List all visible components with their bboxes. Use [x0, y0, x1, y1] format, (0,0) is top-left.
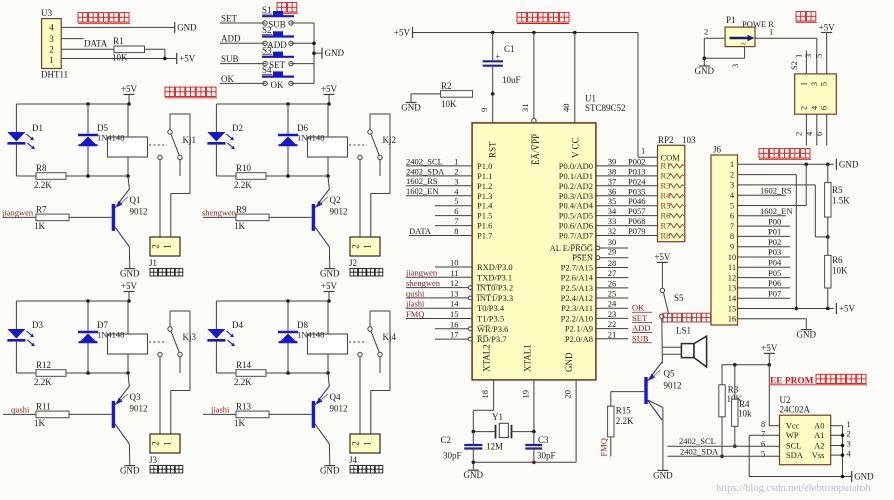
svg-text:AL E/P̅R̅O̅G̅: AL E/P̅R̅O̅G̅	[550, 243, 594, 253]
section title 传感器接口	[78, 13, 130, 24]
svg-text:STC89C52: STC89C52	[585, 103, 626, 113]
svg-text:32: 32	[608, 226, 617, 236]
svg-text:GND: GND	[695, 66, 715, 76]
svg-text:2.2K: 2.2K	[234, 377, 252, 387]
section title 按键	[277, 3, 298, 14]
wire pin 15 T1/P3.5 net FMQ	[406, 309, 504, 324]
svg-text:A0: A0	[814, 421, 824, 431]
svg-text:9012: 9012	[130, 207, 148, 217]
wire SUB net label to S3	[220, 54, 266, 64]
svg-text:RXD/P3.0: RXD/P3.0	[477, 262, 513, 272]
svg-text:12: 12	[728, 272, 737, 282]
ground GND (Q5)	[653, 470, 673, 480]
svg-text:31: 31	[520, 104, 530, 113]
pin name GND(20)	[564, 352, 574, 372]
wire J6 pin1 to GND	[738, 163, 834, 167]
svg-text:+5V: +5V	[394, 28, 411, 38]
relay Kj2 coil	[288, 104, 348, 178]
relay Kj1 coil	[88, 104, 148, 178]
power +5V (Q2 block)	[321, 84, 338, 104]
wire S2 pin6 stub	[814, 114, 827, 145]
svg-text:1.5K: 1.5K	[832, 196, 850, 206]
svg-text:19: 19	[521, 390, 531, 399]
section title EE PROM 存储器电路	[770, 374, 867, 386]
resistor R14	[216, 360, 288, 387]
wire U3 pin1	[61, 58, 177, 60]
pin name RST	[488, 141, 498, 158]
svg-text:J6: J6	[713, 145, 722, 155]
svg-text:T1/P3.5: T1/P3.5	[477, 314, 504, 324]
svg-text:P0.1/AD1: P0.1/AD1	[559, 171, 593, 181]
svg-text:8: 8	[761, 419, 765, 429]
svg-text:Kj2: Kj2	[383, 135, 397, 145]
svg-text:https://blog.csdn.net/elebtron: https://blog.csdn.net/elebtronpuiah	[716, 483, 863, 494]
resistor R10	[216, 163, 288, 190]
svg-text:P2.0/A8: P2.0/A8	[565, 334, 593, 344]
svg-text:DATA: DATA	[409, 226, 432, 236]
wire R1 to +5V node	[145, 49, 165, 58]
pin J6-2 number	[730, 169, 734, 179]
transistor Q2 9012	[312, 189, 348, 247]
svg-text:GND: GND	[320, 269, 340, 279]
wire U2 A1	[831, 434, 845, 438]
wire RST pin 9	[479, 94, 493, 123]
wire pin 27 P2.6/A14	[561, 268, 629, 283]
pin J6-11 number	[728, 262, 736, 272]
pin U2 SCL (6)	[761, 439, 801, 451]
svg-text:OK: OK	[271, 80, 284, 90]
svg-text:R14: R14	[236, 360, 252, 370]
svg-text:C3: C3	[538, 435, 549, 445]
svg-text:shengwen: shengwen	[406, 278, 441, 288]
svg-text:5: 5	[761, 448, 765, 458]
section title 单片机系统	[517, 12, 569, 23]
svg-text:D7: D7	[97, 320, 108, 330]
power +5V (Q4 block)	[321, 281, 338, 301]
svg-text:6: 6	[454, 206, 458, 216]
svg-text:P1: P1	[726, 15, 736, 25]
svg-text:RST: RST	[488, 141, 498, 158]
svg-text:P03: P03	[768, 247, 781, 257]
svg-text:R9: R9	[236, 205, 247, 215]
ground GND (P1)	[695, 58, 715, 76]
svg-text:9: 9	[479, 108, 489, 112]
svg-text:2402_SCL: 2402_SCL	[406, 156, 443, 166]
pin J6-9 number	[730, 242, 734, 252]
svg-text:1602_RS: 1602_RS	[760, 185, 792, 195]
svg-text:P035: P035	[628, 186, 645, 196]
svg-text:6: 6	[730, 211, 734, 221]
wire J6 pin11 P04	[738, 258, 791, 268]
wire pin 26 P2.5/A13	[561, 278, 629, 293]
svg-text:17: 17	[450, 330, 459, 340]
wire pin 29 PSEN	[572, 247, 629, 263]
ground GND (Q3)	[120, 466, 140, 476]
svg-text:WP: WP	[786, 430, 799, 440]
svg-text:1: 1	[847, 419, 851, 429]
svg-text:jiashi: jiashi	[210, 404, 230, 414]
svg-text:3: 3	[730, 64, 740, 68]
resistor RP2 element R7	[661, 220, 684, 230]
svg-text:27: 27	[608, 268, 617, 278]
power +5V (J6 pin15)	[836, 303, 855, 314]
svg-text:GND: GND	[854, 472, 874, 482]
pin J6-5 number	[730, 200, 734, 210]
svg-text:SUB: SUB	[221, 54, 239, 64]
wire crystal ground rail	[472, 461, 577, 471]
resistor R3 10K	[719, 385, 743, 459]
net label shengwen	[202, 207, 237, 217]
svg-text:P1.7: P1.7	[477, 231, 492, 241]
terminal block J3	[149, 434, 183, 473]
connector U3 DHT11	[41, 8, 68, 80]
svg-text:2: 2	[454, 166, 458, 176]
svg-text:10K: 10K	[832, 266, 848, 276]
svg-text:GND: GND	[653, 470, 673, 480]
pin U2 A0 (1)	[814, 419, 851, 431]
svg-text:2: 2	[351, 244, 361, 249]
svg-text:D6: D6	[297, 123, 308, 133]
svg-text:P07: P07	[768, 288, 781, 298]
wire pin 30 ALE/PROG	[550, 237, 629, 253]
svg-text:P1.6: P1.6	[477, 221, 492, 231]
svg-text:P2.3/A11: P2.3/A11	[561, 303, 593, 313]
wire S2 to GND bus	[290, 42, 314, 44]
svg-text:2: 2	[798, 106, 808, 110]
wire S2 pin4 stub	[804, 114, 817, 145]
diode D8 1N4148	[278, 301, 324, 375]
svg-text:+5V: +5V	[121, 84, 138, 94]
svg-text:28: 28	[608, 258, 617, 268]
wire pin 36 P0.3/AD3 net P03	[559, 186, 658, 201]
svg-text:P1.1: P1.1	[477, 171, 492, 181]
svg-text:30pF: 30pF	[443, 451, 462, 461]
svg-text:Kj1: Kj1	[183, 135, 197, 145]
svg-text:1K: 1K	[34, 418, 46, 428]
svg-text:11: 11	[450, 268, 458, 278]
svg-text:30: 30	[608, 237, 617, 247]
svg-text:P0.5/AD5: P0.5/AD5	[559, 211, 593, 221]
svg-text:Kj3: Kj3	[183, 332, 197, 342]
svg-text:18: 18	[480, 390, 490, 399]
svg-text:1: 1	[363, 441, 373, 446]
svg-text:33: 33	[608, 216, 617, 226]
resistor R15 2.2K	[608, 392, 645, 437]
wire Q1 emitter to GND	[128, 247, 130, 269]
wire pin 12 I̅N̅T̅0̅/P3.2 net shengwen	[406, 278, 513, 293]
wire Q4 emitter to GND	[328, 444, 330, 466]
svg-text:S2: S2	[789, 61, 799, 70]
svg-text:GND: GND	[564, 352, 574, 372]
svg-text:1: 1	[454, 156, 458, 166]
power +5V (Q3 block)	[121, 281, 138, 301]
resistor RP2 element R5	[661, 200, 684, 210]
wire J6 pin4 1602_RS	[738, 185, 792, 195]
svg-text:J4: J4	[349, 455, 358, 465]
svg-text:Q5: Q5	[664, 369, 675, 379]
svg-text:OK: OK	[221, 74, 234, 84]
svg-text:P1.3: P1.3	[477, 191, 492, 201]
svg-text:Q3: Q3	[130, 392, 141, 402]
wire coil to Q2	[328, 176, 329, 189]
svg-text:P2.5/A13: P2.5/A13	[561, 283, 593, 293]
svg-text:3: 3	[803, 54, 813, 58]
svg-text:GND: GND	[320, 466, 340, 476]
svg-text:10k: 10k	[738, 409, 752, 419]
svg-text:9012: 9012	[330, 404, 348, 414]
svg-text:1N4148: 1N4148	[297, 133, 324, 143]
svg-text:2: 2	[730, 169, 734, 179]
svg-text:P046: P046	[628, 196, 645, 206]
svg-text:FMQ: FMQ	[599, 438, 609, 456]
svg-text:1K: 1K	[234, 221, 246, 231]
svg-text:10uF: 10uF	[502, 75, 521, 85]
pin J6-4 number	[730, 190, 735, 200]
svg-text:P002: P002	[628, 156, 645, 166]
svg-text:P2.1/A9: P2.1/A9	[565, 324, 593, 334]
svg-text:R10: R10	[236, 163, 252, 173]
switch S2 push button	[262, 25, 294, 50]
pin J6-16 number	[728, 314, 737, 324]
speaker LS1	[662, 318, 707, 367]
svg-text:XTAL2: XTAL2	[482, 344, 492, 372]
switch S3 push button	[262, 45, 294, 70]
svg-text:R12: R12	[36, 360, 51, 370]
svg-text:5: 5	[454, 196, 458, 206]
svg-text:R2: R2	[441, 81, 452, 91]
svg-text:qushi: qushi	[406, 288, 425, 298]
wire P1 pin1 to S2	[755, 26, 817, 74]
svg-text:R1: R1	[113, 36, 124, 46]
wire J6 pin10 P03	[738, 247, 791, 257]
wire U2 Vss	[831, 453, 845, 457]
node junction R1/pin1	[163, 57, 167, 61]
svg-text:+5V: +5V	[654, 252, 671, 262]
wire net 2402_SDA	[667, 446, 779, 456]
switch S1 push button	[262, 5, 294, 30]
resistor R12	[16, 360, 88, 387]
svg-text:XTAL1: XTAL1	[523, 344, 533, 372]
LED D1	[7, 104, 43, 176]
svg-text:10: 10	[450, 258, 459, 268]
svg-text:1: 1	[730, 159, 734, 169]
svg-text:V CC: V CC	[571, 137, 581, 158]
svg-text:40: 40	[561, 104, 571, 113]
resistor R2	[411, 81, 473, 109]
svg-text:R7: R7	[36, 205, 47, 215]
wire P1 pin3	[703, 47, 745, 68]
svg-text:E̅A̅/V̅P̅P̅: E̅A̅/V̅P̅P̅	[531, 133, 541, 165]
svg-text:~: ~	[741, 39, 746, 49]
svg-text:S5: S5	[674, 293, 684, 303]
svg-text:jiashi: jiashi	[405, 299, 425, 309]
svg-text:5: 5	[814, 54, 824, 58]
power +5V (Q1 block)	[121, 84, 138, 104]
wire coil to Q3	[128, 373, 129, 386]
svg-text:GND: GND	[120, 269, 140, 279]
pin U2 A2 (3)	[814, 439, 851, 451]
svg-text:1: 1	[798, 82, 808, 86]
svg-text:3: 3	[454, 176, 458, 186]
svg-text:GND: GND	[839, 159, 859, 169]
svg-text:P024: P024	[628, 176, 646, 186]
resistor R8	[16, 163, 88, 190]
diode D6 1N4148	[278, 104, 324, 178]
pin name VCC	[571, 137, 581, 158]
wire pin 4 P1.3 net 1602_EN	[406, 186, 492, 201]
svg-text:GND: GND	[464, 470, 484, 480]
svg-text:9012: 9012	[330, 207, 348, 217]
transistor Q4 9012	[312, 386, 348, 444]
pin J6-1 number	[730, 159, 734, 169]
svg-text:+5V: +5V	[321, 84, 338, 94]
svg-text:2402_SDA: 2402_SDA	[680, 446, 719, 456]
svg-text:2402_SCL: 2402_SCL	[679, 436, 716, 446]
svg-text:10K: 10K	[441, 99, 457, 109]
svg-text:P1.2: P1.2	[477, 181, 492, 191]
wire S2 pin1 stub	[794, 51, 807, 74]
wire net 2402_SCL	[667, 436, 779, 446]
resistor R11	[3, 402, 112, 429]
svg-text:S4: S4	[262, 65, 272, 75]
svg-text:+5V: +5V	[121, 281, 138, 291]
svg-text:T0/P3.4: T0/P3.4	[477, 303, 505, 313]
resistor RP2 element R6	[661, 210, 684, 220]
power +5V (rail)	[394, 27, 413, 38]
svg-text:1N4148: 1N4148	[97, 133, 124, 143]
svg-text:12M: 12M	[486, 442, 503, 452]
svg-text:1N4148: 1N4148	[297, 330, 324, 340]
wire J6 pin16 to GND	[738, 319, 807, 330]
svg-text:7: 7	[761, 429, 765, 439]
svg-text:1K: 1K	[34, 221, 46, 231]
svg-text:22: 22	[608, 319, 617, 329]
svg-text:A1: A1	[814, 430, 824, 440]
svg-text:S2: S2	[262, 25, 272, 35]
wire pin 3 P1.2 net 1602_RS	[406, 176, 492, 191]
svg-text:U1: U1	[585, 94, 596, 104]
pin name XTAL2	[482, 344, 492, 372]
svg-text:P1.0: P1.0	[477, 161, 492, 171]
wire pin 37 P0.2/AD2 net P02	[559, 176, 658, 191]
ground GND (J6 pin1)	[836, 159, 858, 170]
svg-text:1: 1	[769, 26, 773, 36]
ground GND (buttons)	[322, 48, 344, 59]
ground GND (crystal)	[464, 470, 484, 480]
svg-text:P00: P00	[768, 216, 781, 226]
svg-text:P01: P01	[768, 227, 781, 237]
svg-text:P04: P04	[768, 258, 782, 268]
svg-text:8: 8	[730, 231, 734, 241]
net label FMQ (R15)	[599, 437, 611, 457]
wire Q2 emitter to GND	[328, 247, 330, 269]
pin J6-10 number	[728, 252, 737, 262]
power +5V (S5)	[654, 252, 671, 288]
svg-text:ADD: ADD	[632, 323, 650, 333]
wire pin 23 P2.2/A10 net SET	[561, 309, 652, 324]
svg-text:24C02A: 24C02A	[780, 405, 811, 415]
svg-text:1602_RS: 1602_RS	[406, 176, 438, 186]
svg-text:D5: D5	[97, 123, 108, 133]
wire +5V to R3/R4	[722, 363, 771, 399]
svg-text:P0.6/AD6: P0.6/AD6	[559, 221, 593, 231]
svg-text:GND: GND	[120, 466, 140, 476]
svg-text:P0.3/AD3: P0.3/AD3	[559, 191, 593, 201]
relay Kj4 coil	[288, 301, 348, 375]
svg-text:11: 11	[728, 262, 736, 272]
wire pin 1 P1.0 net 2402_SCL	[406, 156, 492, 171]
wire J6 pin5 to GND net	[738, 164, 807, 205]
relay contact Kj4	[349, 311, 397, 434]
transistor Q1 9012	[112, 189, 148, 247]
svg-text:2: 2	[704, 26, 708, 36]
wire pin 32 P0.7/AD7 net P07	[559, 226, 658, 241]
svg-text:SDA: SDA	[786, 450, 804, 460]
wire SET net label to S1	[220, 13, 266, 23]
svg-text:9: 9	[730, 242, 734, 252]
svg-text:15: 15	[728, 303, 737, 313]
diode D7 1N4148	[78, 301, 124, 375]
pin U2 SDA (5)	[761, 448, 804, 460]
svg-text:8: 8	[454, 226, 458, 236]
svg-text:2: 2	[794, 132, 804, 136]
wire ADD net label to S2	[220, 34, 266, 44]
wire coil to Q4	[328, 373, 329, 386]
svg-text:S3: S3	[262, 45, 272, 55]
wire pin 2 P1.1 net 2402_SDA	[406, 166, 492, 181]
svg-text:P013: P013	[628, 166, 645, 176]
wire VCC pin 40	[561, 33, 575, 123]
wire pin 18 XTAL2	[473, 380, 493, 432]
svg-text:1: 1	[641, 146, 645, 156]
svg-text:29: 29	[608, 247, 617, 257]
svg-text:jiangwen: jiangwen	[1, 207, 34, 217]
svg-text:9012: 9012	[664, 381, 682, 391]
resistor RP2 element R2	[661, 171, 684, 181]
resistor R1	[112, 36, 145, 62]
node bus junction 1	[312, 42, 316, 46]
wire S4 to GND bus	[290, 82, 314, 84]
resistor R4 10k	[732, 399, 752, 448]
wire pin 39 P0.0/AD0 net P00	[559, 156, 658, 171]
svg-text:36: 36	[608, 186, 617, 196]
svg-text:13: 13	[450, 288, 459, 298]
svg-text:34: 34	[608, 206, 617, 216]
wire pin 35 P0.4/AD4 net P04	[559, 196, 658, 211]
terminal block J4	[349, 434, 383, 473]
resistor R9	[203, 205, 312, 232]
resistor RP2 element R1	[661, 161, 684, 171]
ground GND (Q4)	[320, 466, 340, 476]
LED D4	[207, 301, 243, 373]
wire P1 pin2	[704, 26, 725, 58]
svg-text:7: 7	[730, 221, 734, 231]
svg-text:FMQ: FMQ	[406, 309, 424, 319]
svg-text:R15: R15	[616, 406, 632, 416]
svg-text:R13: R13	[236, 402, 252, 412]
relay contact Kj3	[149, 311, 197, 434]
svg-text:P05: P05	[768, 268, 781, 278]
svg-text:D4: D4	[232, 320, 243, 330]
svg-text:GND: GND	[325, 48, 345, 58]
capacitor C2 30pF	[440, 432, 482, 463]
switch S4 push button	[262, 65, 294, 90]
svg-text:S1: S1	[262, 5, 272, 15]
resistor R13	[203, 402, 312, 429]
power +5V (U3)	[177, 53, 196, 64]
wire pin 22 P2.1/A9 net ADD	[565, 319, 652, 334]
pin J6-3 number	[730, 180, 734, 190]
